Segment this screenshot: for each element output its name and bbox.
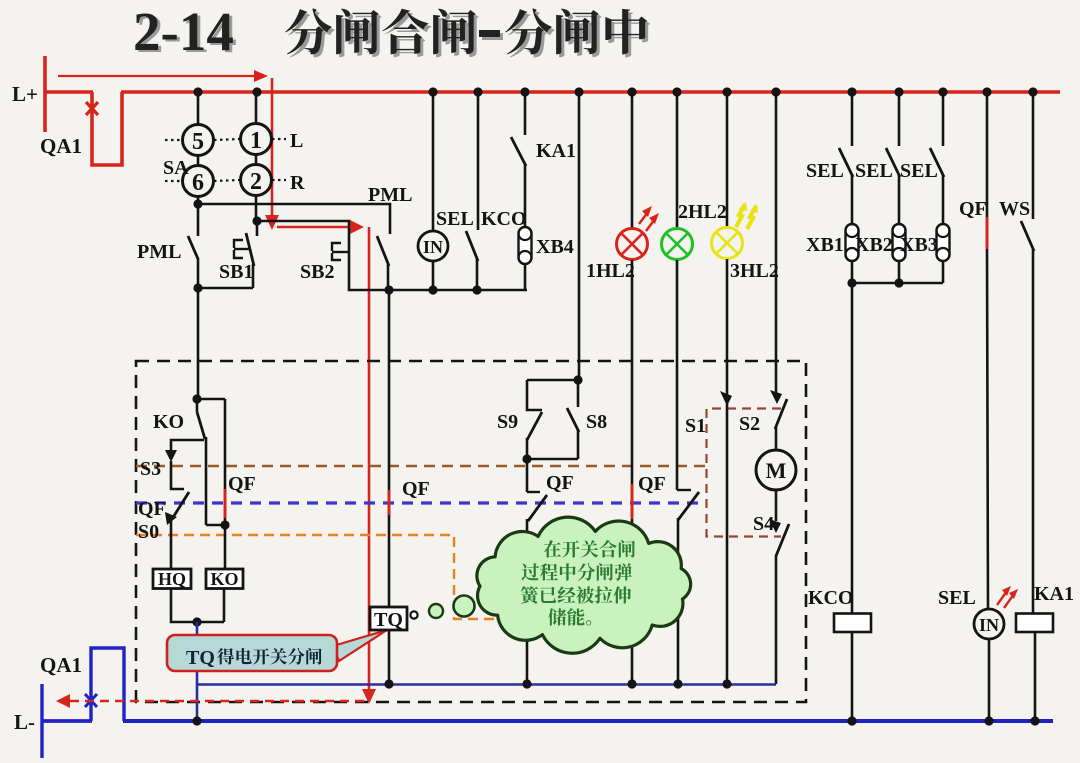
svg-text:HQ: HQ bbox=[158, 569, 186, 589]
breaker QA1 (bottom, open jog) bbox=[91, 648, 124, 721]
node bus dot x987 bbox=[982, 87, 991, 96]
contact QF (left branch, closed red) bbox=[224, 399, 227, 489]
svg-text:QF: QF bbox=[959, 198, 987, 220]
wire bus to KA1 contact bbox=[524, 92, 527, 135]
contact QF (S9 column, NO) bbox=[526, 459, 529, 492]
wire HQ to join bbox=[171, 588, 224, 622]
wire S0 to HQ bbox=[170, 521, 173, 569]
motor M bbox=[756, 450, 796, 490]
callout box TQ得电开关分闸 bbox=[167, 635, 337, 671]
contact QF (S0 branch, NO) bbox=[172, 492, 189, 519]
bus L+ horizontal bbox=[44, 90, 93, 94]
trip coil TQ box bbox=[370, 607, 407, 630]
wire interior blue row bbox=[197, 683, 776, 685]
current return dashed arrow bbox=[70, 700, 369, 702]
wire bus to SEL1 bbox=[851, 92, 854, 146]
node KA1 L- dot bbox=[1030, 716, 1039, 725]
svg-text:2: 2 bbox=[250, 169, 262, 195]
svg-text:IN: IN bbox=[423, 237, 443, 257]
node bus dot x899 bbox=[894, 87, 903, 96]
guide dashed blue line bbox=[136, 501, 700, 504]
node lamp2 bottom dot bbox=[673, 679, 682, 688]
node S9S8 top junction bbox=[573, 375, 582, 384]
svg-text:1HL2: 1HL2 bbox=[586, 260, 635, 282]
wire SA2 row to SB2 bbox=[257, 221, 387, 290]
svg-text:6: 6 bbox=[192, 170, 204, 196]
wire XB1 down bbox=[851, 261, 854, 283]
svg-text:TQ: TQ bbox=[186, 647, 215, 669]
node TQ bottom dot bbox=[384, 679, 393, 688]
node bus dot x580 bbox=[574, 87, 583, 96]
svg-text:SB2: SB2 bbox=[300, 261, 334, 283]
node bus dot x478 bbox=[473, 87, 482, 96]
wire IN to row bbox=[432, 261, 435, 290]
node KCO L- dot bbox=[847, 716, 856, 725]
svg-text:2-14: 2-14 bbox=[133, 1, 234, 62]
contact S1 (closed, actuated) bbox=[720, 391, 732, 406]
svg-text:2HL2: 2HL2 bbox=[678, 201, 727, 223]
current arrow A4 (down to L-) bbox=[362, 689, 376, 704]
cloud text line3 bbox=[521, 586, 539, 604]
svg-text:KA1: KA1 bbox=[1034, 583, 1074, 605]
wire bus to 3HL2 bbox=[726, 92, 729, 228]
svg-text:XB2: XB2 bbox=[855, 234, 893, 256]
SB1 actuator bbox=[234, 240, 243, 248]
node S1 bottom dot bbox=[722, 679, 731, 688]
wire SA6 row to PML2 bbox=[198, 204, 390, 234]
wire join down to L- (blue) bbox=[196, 622, 199, 721]
wire bus to IN bbox=[432, 92, 435, 231]
contact KA1 (NO) bbox=[511, 137, 526, 166]
node S9S8 bottom junction bbox=[522, 454, 531, 463]
node left-column split bbox=[192, 394, 201, 403]
node SEL junction bbox=[472, 285, 481, 294]
contact PML2 (NO) bbox=[377, 236, 389, 266]
svg-text:QA1: QA1 bbox=[40, 653, 82, 677]
contact S4 (NO with actuator arrow) bbox=[769, 519, 781, 533]
wire SA6 down bbox=[197, 197, 200, 204]
coil HQ box bbox=[153, 569, 191, 589]
coil KCO bbox=[834, 614, 871, 633]
wire 3HL2 down bbox=[726, 259, 729, 396]
node bus dot x525 bbox=[520, 87, 529, 96]
wire SA1-SA2 bbox=[255, 155, 258, 165]
1HL2 glow arrows bbox=[639, 212, 648, 224]
wire 2HL2 down bbox=[676, 260, 679, 490]
wire L+ feeder vertical bbox=[43, 56, 47, 132]
current arrow A2 (down into SA column) bbox=[271, 78, 274, 218]
node bus dot x257 bbox=[252, 87, 261, 96]
pushbutton SB1 contact bbox=[256, 221, 259, 236]
guide dashed orange line bbox=[136, 535, 520, 619]
mechanism dashed box bbox=[136, 361, 806, 702]
contact WS (NO) bbox=[1021, 221, 1034, 251]
wire S9S8 top bar bbox=[527, 379, 578, 382]
svg-text:QF: QF bbox=[138, 498, 166, 520]
svg-text:PML: PML bbox=[368, 184, 412, 206]
S1S2 dashed brown box bbox=[707, 409, 782, 537]
svg-text:SEL: SEL bbox=[855, 160, 893, 182]
wire XB4 to row bbox=[524, 264, 527, 291]
connector XB2 bbox=[893, 224, 906, 261]
svg-text:S9: S9 bbox=[497, 411, 518, 433]
SA dotted links row1 bbox=[165, 139, 182, 141]
contact SEL3 (NO) bbox=[930, 148, 944, 177]
node bus dot x677 bbox=[672, 87, 681, 96]
svg-text:L+: L+ bbox=[12, 82, 38, 106]
svg-text:SB1: SB1 bbox=[219, 261, 253, 283]
svg-text:IN: IN bbox=[979, 615, 999, 635]
wire bus to S2 bbox=[775, 92, 778, 394]
contact S9 bbox=[527, 380, 542, 410]
wire QF branch to KO box bbox=[224, 525, 227, 569]
svg-text:KCO: KCO bbox=[808, 587, 854, 609]
svg-text:SEL: SEL bbox=[436, 208, 474, 230]
wire junction row y290 bbox=[389, 289, 525, 292]
switch S3 bracket bbox=[171, 440, 204, 453]
wire XB row down to KCO coil bbox=[851, 283, 854, 614]
wire KO to join bbox=[223, 588, 226, 622]
selector SA contact 5 bbox=[183, 125, 214, 156]
contact PML1 (NO) bbox=[197, 204, 200, 236]
contact S2 (NO with actuator arrow) bbox=[770, 390, 782, 404]
wire split to QF branch bbox=[197, 398, 225, 401]
wire bus to WS bbox=[1032, 92, 1035, 219]
svg-text:QF: QF bbox=[638, 473, 666, 495]
svg-text:R: R bbox=[290, 172, 305, 194]
svg-text:L-: L- bbox=[14, 710, 35, 734]
svg-text:QA1: QA1 bbox=[40, 134, 82, 158]
node XB2 join dot bbox=[894, 278, 903, 287]
svg-text:3HL2: 3HL2 bbox=[730, 260, 779, 282]
QA1 contact X mark bbox=[86, 102, 98, 115]
svg-text:TQ: TQ bbox=[374, 609, 403, 631]
node bus dot x943 bbox=[938, 87, 947, 96]
breaker QA1 (top, open jog) bbox=[92, 92, 122, 165]
node bus dot x776 bbox=[771, 87, 780, 96]
svg-text:KO: KO bbox=[153, 411, 184, 433]
wire XB join row bbox=[852, 282, 943, 285]
svg-text:XB3: XB3 bbox=[900, 234, 938, 256]
selector SA contact 2 bbox=[241, 165, 272, 196]
bus L- left stub bbox=[41, 719, 92, 723]
svg-text:WS: WS bbox=[999, 198, 1030, 220]
lamp 3HL2 (yellow) bbox=[712, 228, 743, 259]
wire bus to 2HL2 bbox=[676, 92, 679, 229]
svg-text:S2: S2 bbox=[739, 413, 760, 435]
node IN junction bbox=[428, 285, 437, 294]
coil KO box bbox=[206, 569, 243, 589]
wire M to S4 bbox=[775, 490, 778, 521]
wire IN to L- bbox=[988, 639, 991, 721]
contact QF (TQ column, closed red) bbox=[388, 290, 391, 490]
node bus dot x852 bbox=[847, 87, 856, 96]
current arrow A1 (top horizontal) bbox=[58, 75, 258, 77]
wire KO blade down bbox=[205, 437, 208, 525]
contact QF (lamp2 column, NO) bbox=[677, 489, 691, 491]
wire SA2 down bbox=[255, 196, 258, 221]
contact QF (lamp1 column, closed red) bbox=[631, 484, 634, 519]
wire XB3 down bbox=[942, 261, 945, 283]
current arrow A3 (to TQ column) bbox=[277, 226, 352, 229]
svg-text:S8: S8 bbox=[586, 411, 607, 433]
wire bus to SA-5 bbox=[197, 92, 200, 125]
coil KA1 bbox=[1016, 614, 1053, 633]
svg-text:QF: QF bbox=[546, 472, 574, 494]
wire bus to SEL2 bbox=[898, 92, 901, 146]
contact SEL2 (NO) bbox=[886, 148, 900, 177]
instrument IN (bottom right) bbox=[974, 609, 1004, 639]
bubble dot 1 bbox=[410, 611, 417, 618]
selector SA contact 6 bbox=[183, 166, 214, 197]
node lamp1 bottom dot bbox=[627, 679, 636, 688]
wire TQ to blue row bbox=[388, 630, 391, 683]
pushbutton SB2 actuator bbox=[332, 243, 341, 251]
contact KO (NC blade) bbox=[196, 399, 199, 412]
contact QF (right, closed red) bbox=[986, 92, 989, 217]
svg-text:SA: SA bbox=[163, 157, 189, 179]
svg-text:KO: KO bbox=[210, 569, 238, 589]
thought cloud bbox=[477, 517, 691, 653]
SA dotted links row2 bbox=[165, 180, 182, 182]
selector SA contact 1 bbox=[241, 124, 272, 155]
node SA2 junction bbox=[252, 216, 261, 225]
guide dashed brown line bbox=[136, 465, 706, 467]
node PML1/SB1 junction bbox=[193, 283, 202, 292]
IN glow arrows bbox=[997, 591, 1007, 605]
bus L- main bbox=[123, 719, 1053, 723]
lamp 2HL2 (green) bbox=[662, 229, 693, 260]
svg-text:KA1: KA1 bbox=[536, 140, 576, 162]
wire SA5-SA6 bbox=[197, 156, 200, 166]
contact SEL (middle, NO) bbox=[466, 231, 478, 261]
node HQ/KO join bbox=[192, 617, 201, 626]
connector XB1 bbox=[846, 224, 859, 261]
node bus dot x727 bbox=[722, 87, 731, 96]
node bus dot x198 bbox=[193, 87, 202, 96]
bubble dot 2 bbox=[429, 604, 443, 618]
svg-text:SEL: SEL bbox=[938, 587, 976, 609]
svg-text:M: M bbox=[766, 458, 787, 483]
wire XB2 down bbox=[898, 261, 901, 283]
3HL2 glow bolts bbox=[736, 204, 745, 227]
contact S8 bbox=[577, 380, 580, 407]
svg-text:S4: S4 bbox=[753, 513, 774, 535]
cloud text line2 bbox=[521, 563, 539, 580]
wire bus to SA-1 bbox=[255, 92, 258, 124]
node QF-KO junction bbox=[220, 520, 229, 529]
node bus dot x632 bbox=[627, 87, 636, 96]
wire KCO to L- bbox=[851, 632, 854, 721]
QA1 bottom X mark bbox=[85, 694, 97, 707]
wire bus to SEL3 bbox=[942, 92, 945, 146]
lamp 1HL2 (red) bbox=[617, 229, 648, 260]
connector XB4 bbox=[519, 227, 532, 264]
wire 1HL2 down bbox=[631, 260, 634, 683]
title text 分闸合闸-分闸中 bbox=[288, 11, 335, 57]
cloud text line1 bbox=[543, 540, 561, 557]
instrument IN (top) bbox=[418, 231, 448, 261]
node bus dot x433 bbox=[428, 87, 437, 96]
node IN L- dot bbox=[984, 716, 993, 725]
svg-text:S3: S3 bbox=[140, 458, 161, 480]
node S9 bottom dot bbox=[522, 679, 531, 688]
bubble dot 3 bbox=[454, 596, 475, 617]
svg-text:SEL: SEL bbox=[806, 160, 844, 182]
svg-text:QF: QF bbox=[228, 473, 256, 495]
node bus dot x1033 bbox=[1028, 87, 1037, 96]
svg-text:5: 5 bbox=[192, 129, 204, 155]
wire bus to S9S8 junction bbox=[578, 92, 581, 380]
contact SEL1 (NO) bbox=[839, 148, 853, 177]
svg-text:PML: PML bbox=[137, 241, 181, 263]
node XB1 join dot bbox=[847, 278, 856, 287]
svg-text:XB4: XB4 bbox=[536, 236, 574, 258]
svg-text:S0: S0 bbox=[138, 521, 159, 543]
svg-text:KCO: KCO bbox=[481, 208, 527, 230]
wire KA1 coil to L- bbox=[1034, 632, 1037, 721]
svg-text:XB1: XB1 bbox=[806, 234, 844, 256]
svg-text:1: 1 bbox=[250, 128, 262, 154]
connector XB3 bbox=[937, 224, 950, 261]
node HQ-join L- dot bbox=[192, 716, 201, 725]
wire bus to SEL contact bbox=[477, 92, 480, 230]
node TQ-column top junction bbox=[384, 285, 393, 294]
svg-text:SEL: SEL bbox=[900, 160, 938, 182]
wire junction down into box bbox=[197, 288, 200, 399]
node SA6 junction bbox=[193, 199, 202, 208]
current path main vertical bbox=[368, 227, 371, 692]
callout pointer bbox=[333, 630, 387, 661]
cloud text line4 bbox=[548, 608, 566, 625]
wire L- feeder vertical bbox=[40, 684, 43, 758]
svg-text:S1: S1 bbox=[685, 415, 706, 437]
svg-text:QF: QF bbox=[402, 478, 430, 500]
svg-text:L: L bbox=[290, 130, 303, 152]
wire bus to 1HL2 bbox=[631, 92, 634, 229]
